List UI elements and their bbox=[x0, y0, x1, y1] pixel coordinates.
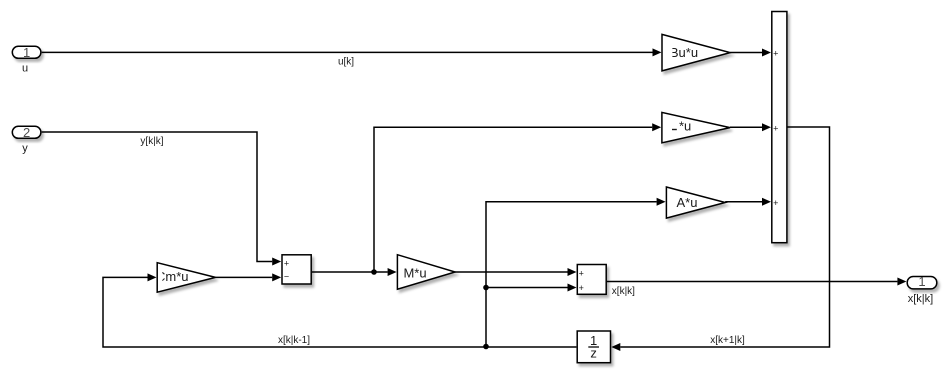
wire innovation branch up to gain L bbox=[374, 127, 652, 272]
wire M output to sum S2 input 1 bbox=[455, 271, 567, 273]
svg-text:x[k|k-1]: x[k|k-1] bbox=[278, 335, 310, 346]
svg-text:*u: *u bbox=[679, 118, 691, 133]
sum S3 (tall + + +) bbox=[772, 12, 787, 243]
svg-text:+: + bbox=[284, 258, 289, 268]
wire gain Bu to sum S3 bbox=[730, 52, 762, 54]
wire x[k|k-1] branch to sum S2 input 2 bbox=[486, 287, 568, 289]
svg-text:x[k|k]: x[k|k] bbox=[908, 293, 933, 305]
wire delay output x[k|k-1] feedback to gain Cm bbox=[103, 277, 576, 347]
wire x[k|k-1] vertical branch to gain A bbox=[486, 202, 657, 347]
wire u[k] from In1 to gain Bu bbox=[42, 51, 653, 53]
svg-text:x[k|k]: x[k|k] bbox=[612, 286, 635, 297]
svg-text:2: 2 bbox=[23, 125, 30, 140]
unit delay 1/z bbox=[577, 331, 610, 363]
svg-text:y[k|k]: y[k|k] bbox=[140, 136, 163, 147]
wire S2 output x[k|k] to Out1 bbox=[607, 281, 898, 283]
wire gain A to sum S3 bbox=[725, 201, 762, 203]
svg-text:+: + bbox=[773, 198, 778, 208]
svg-text:z: z bbox=[590, 346, 597, 361]
wire S1 output to gain M bbox=[312, 271, 388, 273]
node junction x[k|k-1] to S2 bbox=[483, 285, 489, 291]
node junction innovation bbox=[371, 269, 377, 275]
gain L (.*u) bbox=[662, 112, 730, 142]
svg-text:−: − bbox=[284, 272, 289, 282]
wire gain L to sum S3 bbox=[730, 126, 762, 128]
svg-text:x[k+1|k]: x[k+1|k] bbox=[710, 335, 745, 346]
gain M (M*u) bbox=[397, 255, 455, 290]
svg-text:1: 1 bbox=[23, 45, 30, 60]
svg-text:+: + bbox=[579, 283, 584, 293]
sum S2 (+ +) bbox=[577, 265, 606, 295]
wire y[k|k] from In2 to sum S1 bbox=[42, 132, 273, 262]
node junction on feedback wire bbox=[483, 344, 489, 350]
svg-text:+: + bbox=[579, 268, 584, 278]
svg-text:A*u: A*u bbox=[677, 195, 698, 210]
wire S3 output x[k+1|k] to delay bbox=[620, 127, 829, 347]
outport 1 (x[k|k]) bbox=[907, 277, 937, 289]
gain A (A*u) bbox=[666, 187, 725, 218]
gain Bu (Bu*u) bbox=[662, 34, 730, 71]
gain Cm (Cm*u) bbox=[157, 263, 215, 293]
svg-text:+: + bbox=[773, 48, 778, 58]
inport 1 (u) bbox=[12, 46, 41, 58]
svg-text:u: u bbox=[22, 62, 28, 74]
inport 2 (y) bbox=[12, 126, 41, 138]
wire gain Cm to sum S1 bbox=[216, 276, 273, 278]
svg-text:+: + bbox=[773, 124, 778, 134]
svg-text:y: y bbox=[22, 142, 28, 154]
svg-text:Bu*u: Bu*u bbox=[670, 45, 698, 60]
svg-text:1: 1 bbox=[918, 274, 925, 289]
svg-text:u[k]: u[k] bbox=[338, 57, 354, 68]
sum S1 (+ -) bbox=[282, 255, 311, 284]
svg-text:M*u: M*u bbox=[403, 265, 426, 280]
